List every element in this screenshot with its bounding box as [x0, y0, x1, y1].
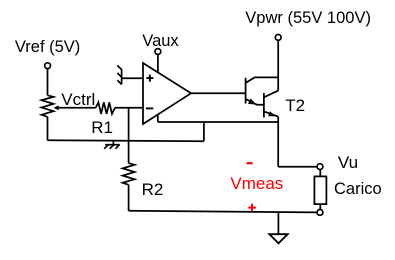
wire non-inverting input — [122, 77, 143, 79]
transistor T2 Q1 base bar — [245, 78, 247, 104]
transistor T2 Q1 emitter arrow — [248, 99, 257, 105]
wire V- to emitter rail — [158, 121, 278, 123]
node Vu terminal circle — [317, 164, 323, 170]
load Carico rectangle — [314, 176, 326, 204]
resistor R1 body — [96, 102, 115, 114]
node Vref terminal circle — [45, 63, 51, 69]
wire R1 to op-amp inverting input — [115, 107, 143, 109]
wire mid horizontal line — [48, 139, 204, 142]
label Vctrl — [61, 91, 95, 108]
label Vu — [338, 154, 358, 171]
transistor T2 Q1 emitter — [246, 99, 264, 105]
wire pot bottom — [47, 117, 49, 141]
wire Vpwr rail — [277, 41, 279, 91]
label R2 — [142, 181, 164, 198]
resistor R2 body — [123, 163, 135, 185]
label T2 — [285, 97, 305, 114]
transistor T2 Q2 base bar — [263, 93, 265, 118]
label Vmeas — [230, 175, 283, 192]
transistor T2 Q2 collector diagonal — [264, 91, 278, 98]
node bottom terminal circle — [317, 210, 323, 216]
wiper arrow — [54, 105, 59, 110]
wire op-amp output — [191, 92, 246, 94]
resistor P1 potentiometer body — [42, 95, 54, 117]
chassis ground at non-inverting input — [117, 65, 121, 84]
wire R2 bottom — [128, 185, 130, 211]
op-amp U1 triangle — [143, 63, 191, 124]
wire emitter rail to Vu — [278, 166, 317, 168]
ground symbol — [269, 234, 287, 243]
label Vpwr (55V 100V) — [245, 10, 371, 27]
wire Vaux pin — [157, 55, 159, 73]
transistor T2 Q1 collector — [246, 77, 278, 83]
node Vaux terminal circle — [155, 49, 161, 55]
wire Vref stub — [47, 69, 49, 96]
label Vref (5V) — [15, 39, 80, 56]
wire bottom line — [129, 211, 317, 213]
wire load to bottom node — [319, 204, 321, 209]
node Vpwr terminal circle — [275, 35, 281, 41]
chassis ground on mid line — [104, 141, 120, 149]
label Carico — [334, 181, 382, 198]
op-amp minus sign — [146, 107, 153, 109]
wire emitter rail down — [277, 117, 279, 167]
label Vaux — [142, 33, 178, 50]
transistor T2 Q2 emitter — [264, 111, 278, 116]
label R1 — [91, 119, 113, 136]
wire Vu to load — [319, 170, 321, 177]
op-amp plus sign — [146, 75, 153, 82]
transistor T2 Q2 emitter arrow — [268, 111, 276, 116]
wire junction drop to R2 — [128, 108, 130, 163]
wire wiper to R1 — [58, 107, 95, 109]
label Vmeas minus sign — [247, 162, 253, 164]
wire drop from V- line to mid line — [203, 122, 205, 141]
wire op-amp V- pin stub — [157, 115, 159, 123]
wire ground stub — [277, 212, 279, 234]
label Vmeas plus sign — [248, 204, 256, 212]
